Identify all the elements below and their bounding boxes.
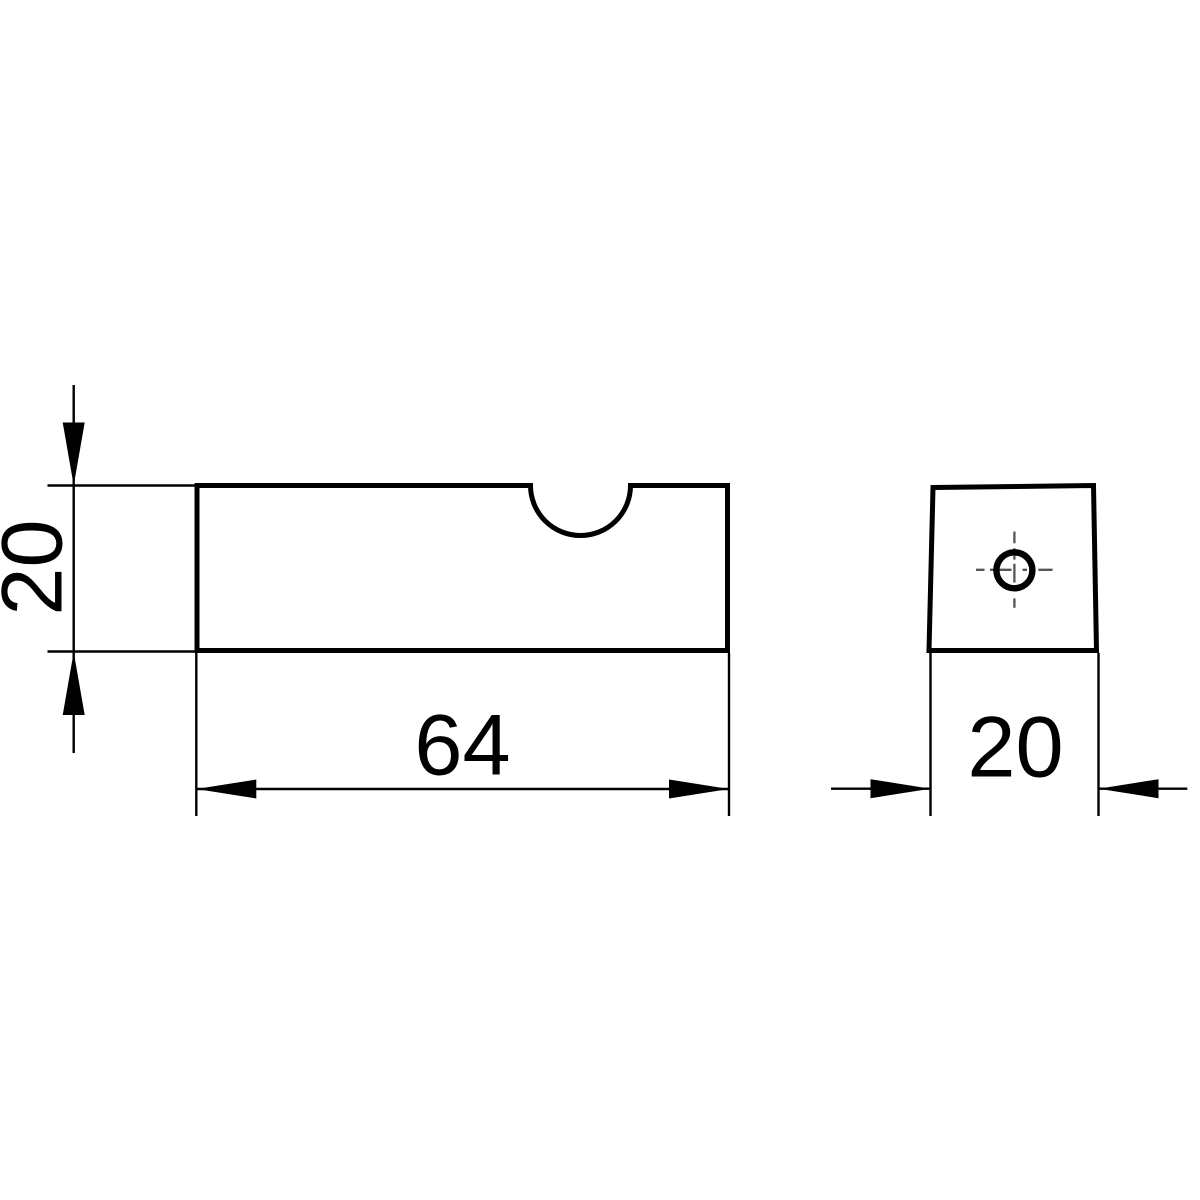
svg-text:64: 64 <box>414 698 510 794</box>
svg-text:20: 20 <box>0 519 81 615</box>
svg-text:20: 20 <box>967 699 1063 795</box>
